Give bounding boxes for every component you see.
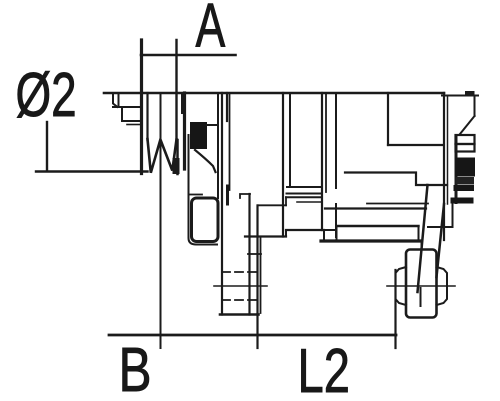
rear cover top: [442, 95, 478, 97]
boss step line: [189, 194, 203, 196]
adjusting arm right edge: [437, 204, 445, 277]
pulley left flange: [140, 40, 143, 174]
label B: [119, 335, 152, 401]
foot rear outer vertical: [260, 237, 262, 314]
front bracket rear edge: [221, 93, 223, 315]
rear bottom edge mid: [286, 229, 324, 231]
body centre line left: [258, 204, 287, 206]
svg-text:A: A: [196, 0, 226, 60]
label A: [196, 0, 226, 60]
rear cover chamfer: [460, 116, 475, 134]
diameter leader vertical: [46, 122, 48, 171]
bottom thick edge: [321, 239, 420, 242]
rear lower line: [325, 207, 426, 209]
body centre line right: [367, 203, 428, 205]
rear cover left edge: [443, 93, 445, 240]
rear bottom step vertical: [285, 230, 287, 237]
front bracket boss edge: [189, 135, 218, 245]
terminal stud dark: [456, 158, 476, 177]
front bracket nose edge: [176, 140, 179, 174]
pulley right flange: [183, 93, 186, 169]
rear cover inner edge: [447, 96, 449, 205]
adjusting arm left edge: [418, 185, 428, 292]
foot front vertical: [248, 194, 250, 315]
rear cover top bump: [465, 91, 475, 96]
stator lamination lower band: [297, 201, 322, 203]
rear lug link: [421, 241, 423, 250]
front bracket top rib: [181, 93, 183, 113]
foot rear vertical: [256, 206, 258, 315]
foot bottom: [220, 313, 259, 316]
vent hole ledge: [207, 124, 218, 126]
rear bottom edge under foot: [245, 235, 286, 237]
foot corner hook: [240, 194, 250, 198]
casting curve: [195, 150, 216, 172]
label diameter 2: [16, 60, 77, 129]
pulley right groove edge / A extension: [175, 40, 177, 140]
rear bottom ledge: [337, 225, 419, 227]
foot hole dashed upper: [222, 271, 260, 273]
bolt centre mark: [420, 288, 422, 306]
part top edge: [104, 92, 444, 95]
rear housing front edge: [321, 93, 323, 230]
stator lamination left edge: [282, 93, 284, 237]
pulley groove W profile: [148, 139, 177, 173]
foot hole dashed lower: [222, 299, 260, 301]
rear cover bottom: [428, 226, 453, 228]
rear foot boss: [324, 226, 337, 241]
vent window: [192, 198, 219, 242]
rear top step vertical: [387, 93, 389, 145]
foot centreline: [214, 285, 267, 287]
rear lug body: [406, 250, 437, 318]
terminal band 5: [451, 198, 474, 204]
foot step: [248, 253, 261, 255]
rear housing rib: [335, 93, 337, 188]
rear cover band 2: [456, 144, 475, 152]
rear housing front inner edge: [325, 93, 327, 192]
stator lamination second edge: [289, 93, 291, 187]
tick rear mount: [394, 270, 396, 348]
svg-text:L2: L2: [298, 336, 350, 401]
vent hole dark fill: [190, 122, 207, 149]
rear cover bottom right vertical: [452, 205, 454, 228]
front bracket mid vertical: [217, 93, 219, 198]
rear cover bands left bar: [455, 135, 458, 204]
groove root dark fill: [173, 158, 180, 174]
pulley centre line / extension to dimension: [160, 93, 162, 348]
svg-text:B: B: [119, 335, 152, 401]
label L2: [298, 336, 350, 401]
svg-text:Ø2: Ø2: [16, 60, 77, 129]
centre line step vertical: [285, 197, 287, 205]
dimension line B L2: [109, 334, 396, 337]
lug bushing left: [396, 267, 407, 305]
bracket rib lower: [226, 186, 229, 204]
body section line: [229, 93, 231, 190]
rear cover band 1: [456, 135, 475, 144]
stator lamination bands: [286, 187, 322, 197]
diameter leader horizontal: [36, 170, 148, 172]
shaft end break line: [127, 124, 141, 126]
shaft end step: [113, 93, 141, 121]
bolt centreline: [387, 285, 455, 287]
rear mid shelf: [345, 173, 447, 186]
lug bushing right: [437, 267, 448, 305]
terminal mid band: [456, 177, 475, 185]
rear housing rib lower: [335, 204, 337, 237]
bracket rib upper: [226, 93, 228, 121]
rear top step line: [388, 144, 444, 146]
tick foot extension: [256, 314, 258, 348]
dimension line A: [141, 54, 236, 57]
terminal band 4: [454, 185, 475, 191]
rear bottom ledge vertical: [418, 226, 420, 241]
rear cover right edge: [474, 96, 476, 117]
pulley left flange inner: [146, 93, 148, 140]
